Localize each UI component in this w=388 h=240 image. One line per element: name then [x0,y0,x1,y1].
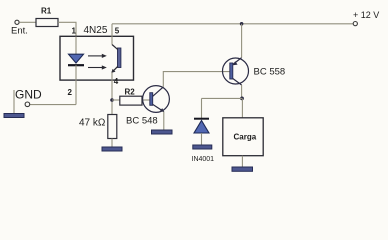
wire +12V rail [112,23,353,25]
terminal GND [25,102,30,107]
wire node to load [241,98,243,117]
svg-text:4: 4 [114,77,119,86]
BC558 collector lead [233,79,242,86]
diode D1 cathode bar [194,118,209,120]
svg-text:Carga: Carga [234,133,257,142]
light arrow lower [88,67,104,69]
node collector [240,97,244,101]
svg-text:5: 5 [115,27,120,36]
diode D1 1N4001 triangle [194,121,209,134]
BC558 emitter lead with arrow to base [233,58,242,65]
light arrow upper [88,55,104,57]
wire diode anode down [201,133,203,145]
wire 47k to ground [111,139,113,148]
wire down to diode cathode [201,98,203,118]
node on rail [240,22,244,26]
svg-text:+ 12 V: + 12 V [353,10,379,20]
wire Ent to R1 [19,21,36,23]
svg-text:4N25: 4N25 [84,25,108,36]
wire node to R2 [112,99,120,101]
wire load to ground [241,156,243,167]
terminal Ent. [15,20,19,24]
wire BC548 emitter to ground [163,112,165,130]
transistor Q1 BC548 circle [143,86,170,113]
svg-text:BC 558: BC 558 [254,67,286,78]
svg-text:IN4001: IN4001 [192,156,215,163]
resistor R2 [120,96,142,105]
wire BC548 collector up and across to BC558 base [163,72,230,87]
phototransistor collector lead [112,45,118,50]
wire GND to pin2 [30,104,76,106]
ground bar left [4,114,24,118]
resistor R1 [36,19,58,27]
wire pin 4 down through node to 47k [111,72,113,114]
LED of opto [69,54,84,63]
LED cathode lead [75,65,77,80]
svg-text:BC 548: BC 548 [126,116,158,127]
transistor Q2 BC558 circle [223,58,249,84]
BC548 collector lead [153,87,164,96]
phototransistor emitter lead [112,66,118,72]
svg-text:GND: GND [15,88,42,102]
svg-text:1: 1 [72,27,77,36]
svg-text:Ent.: Ent. [11,26,28,37]
wire R1 to opto pin 1 [58,22,76,36]
ground bar under load [232,167,253,171]
node pin4 [110,98,114,102]
wire node to diode [202,97,243,99]
wire BC558 emitter up to rail [241,24,243,58]
load box Carga [223,118,263,156]
ground bar under diode [193,145,212,149]
BC548 base bar [150,93,153,106]
wire pin 2 down [75,80,77,105]
BC548 emitter lead [153,104,164,111]
wire R2 to base [142,99,150,101]
terminal +12V [353,22,357,26]
svg-text:R2: R2 [125,87,136,96]
phototransistor base bar [118,48,121,68]
ground bar under 47k [102,147,122,151]
svg-text:2: 2 [68,88,73,97]
wire BC558 collector down to node [241,85,243,98]
resistor 47k [108,115,117,139]
LED anode lead inside opto [75,37,77,55]
ground bar under BC548 [152,130,173,134]
svg-text:R1: R1 [41,7,52,16]
BC558 base bar [230,63,233,79]
ground stub wire left [13,90,15,114]
wire pin5 up to rail [111,24,113,45]
op-to coupler U1 4N25 box [60,36,134,80]
LED cathode bar [68,64,84,66]
svg-text:47 kΩ: 47 kΩ [79,118,106,129]
